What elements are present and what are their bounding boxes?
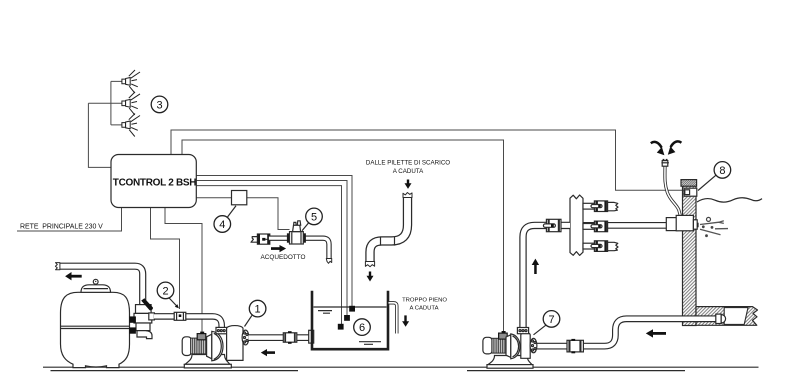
label circle 4 — [214, 206, 236, 233]
level sensor high — [349, 306, 355, 312]
wire controller to sensor 8 — [171, 130, 684, 190]
wire level sensor high — [196, 176, 352, 307]
union on pump 7 suction — [567, 339, 583, 353]
pump 7 — [483, 328, 537, 369]
svg-text:2: 2 — [162, 285, 168, 297]
arrow backwash left — [65, 272, 82, 280]
arrow up riser — [532, 259, 539, 274]
label circle 7 — [534, 311, 560, 335]
pipe acquedotto — [269, 238, 332, 263]
drain outlet fitting — [716, 314, 726, 323]
label RETE PRINCIPALE 230 V — [20, 224, 103, 231]
air intake curved arrows — [651, 141, 682, 155]
svg-text:ACQUEDOTTO: ACQUEDOTTO — [261, 254, 306, 261]
pipe manifold to pool nozzle — [583, 222, 676, 229]
tank inlet flange — [309, 330, 314, 343]
tank water level — [314, 307, 387, 344]
pipe pool drain to pump 7 — [537, 319, 716, 346]
wire controller to pump 7 — [182, 140, 504, 333]
ground line lower right — [467, 370, 685, 372]
injector top — [583, 201, 618, 212]
svg-text:A CADUTA: A CADUTA — [409, 306, 438, 312]
pool wall — [683, 186, 697, 326]
solenoid valve 5 — [287, 221, 306, 244]
label ACQUEDOTTO — [261, 254, 306, 261]
arrow flow left (drain pipe) — [646, 329, 666, 337]
union on pump1-tank pipe — [283, 331, 297, 344]
svg-text:A CADUTA: A CADUTA — [393, 168, 424, 175]
ground line upper — [43, 366, 759, 368]
multiport valve on filter — [129, 305, 154, 339]
svg-text:8: 8 — [719, 165, 725, 177]
wire lamp bus — [88, 81, 125, 125]
pool wall top cap — [681, 180, 697, 187]
acquedotto hose stub — [251, 234, 273, 244]
water spray jet — [696, 217, 728, 237]
injector middle — [583, 221, 608, 232]
arrow down dalle pilette bottom — [367, 272, 374, 282]
wire controller to box 4 — [196, 197, 232, 199]
ground line lower left — [51, 370, 299, 372]
label circle 3 — [151, 96, 168, 113]
svg-text:3: 3 — [156, 99, 162, 111]
wire box 4 to valve 5 — [247, 198, 290, 230]
svg-text:TROPPO PIENO: TROPPO PIENO — [402, 298, 447, 304]
wire level sensor low — [196, 186, 342, 324]
arrow acquedotto right — [271, 245, 286, 252]
flow switch 2 — [174, 312, 186, 320]
label circle 2 with arrow — [157, 282, 179, 308]
level sensor mid — [344, 315, 350, 321]
pipe pump 1 to tank 6 — [249, 334, 313, 341]
pipe backwash from filter valve — [55, 263, 142, 305]
lamp top — [122, 70, 140, 93]
nozzle coupling — [666, 218, 678, 231]
water level sensor 8 — [684, 188, 697, 196]
lamp bottom — [122, 114, 140, 137]
wire mains RETE — [17, 208, 122, 231]
pump 1 — [182, 326, 249, 368]
air tube to nozzle — [661, 159, 680, 219]
injector bottom — [583, 241, 618, 252]
svg-text:DALLE PILETTE DI SCARICO: DALLE PILETTE DI SCARICO — [366, 160, 450, 167]
label circle 8 — [698, 162, 731, 191]
tank 6 walls — [312, 291, 388, 349]
wire controller to flow switch 2 — [151, 208, 180, 309]
label circle 6 — [354, 319, 371, 336]
svg-text:1: 1 — [255, 304, 261, 316]
svg-text:7: 7 — [548, 314, 554, 326]
manifold bar — [570, 195, 583, 255]
wire level sensor mid — [196, 181, 347, 316]
arrow down dalle pilette — [405, 180, 412, 189]
svg-text:5: 5 — [311, 211, 317, 223]
svg-text:RETE PRINCIPALE 230 V: RETE PRINCIPALE 230 V — [20, 224, 103, 231]
wire lamps to controller — [88, 103, 112, 167]
arrow down overflow — [402, 315, 409, 326]
label circle 5 — [302, 208, 322, 231]
main drain sump — [724, 308, 748, 325]
wire controller to pump 1 — [165, 208, 202, 333]
controller TCONTROL 2 BSH — [111, 155, 196, 208]
arrow flow left (pump1) — [261, 349, 275, 356]
label TROPPO PIENO A CADUTA — [402, 298, 447, 312]
svg-text:4: 4 — [219, 219, 225, 231]
valve handle (black lever) — [141, 298, 153, 310]
svg-text:TCONTROL 2 BSH: TCONTROL 2 BSH — [113, 177, 196, 188]
svg-text:6: 6 — [359, 322, 365, 334]
pipe filter valve to pump 1 inlet — [154, 316, 222, 328]
pool floor — [696, 307, 758, 326]
label circle 1 — [245, 300, 266, 326]
filter tank — [61, 279, 130, 367]
water line — [697, 198, 762, 202]
union on manifold feed — [543, 219, 561, 231]
label DALLE PILETTE DI SCARICO — [366, 160, 450, 176]
overflow pipe troppo pieno — [389, 303, 397, 334]
wall nozzle box — [676, 215, 697, 230]
pipe dalle pilette — [365, 193, 412, 267]
lamp middle — [122, 92, 140, 115]
relay box 4 — [232, 191, 247, 205]
level sensor low — [338, 324, 344, 330]
pipe pump 7 to manifold riser — [523, 225, 570, 328]
